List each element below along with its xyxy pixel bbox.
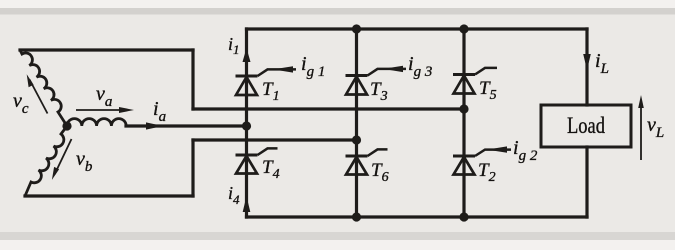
wire bridge leg 1 <box>245 29 248 217</box>
gate current arrow i_g2 <box>487 146 507 152</box>
arrow i_L down on load wire <box>583 54 591 70</box>
wire phase-b bottom horizontal <box>25 194 193 197</box>
thyristor T4 <box>236 148 278 173</box>
svg-text:Load: Load <box>567 113 605 138</box>
node phase b / leg 2 <box>352 135 361 144</box>
wire top rail <box>247 27 588 30</box>
wire bottom rail <box>247 215 588 218</box>
wire bridge leg 2 <box>355 29 358 217</box>
arrow v_c reference <box>27 74 48 113</box>
arrow v_L reference <box>638 95 644 160</box>
arrow v_b reference <box>52 139 72 180</box>
node top rail leg 3 <box>459 24 468 33</box>
load box U-Load <box>541 105 631 147</box>
inductor v_b winding <box>25 126 67 196</box>
wire load bottom drop <box>585 147 588 217</box>
wire phase-b vertical rise <box>191 140 194 196</box>
wire phase-c top horizontal <box>20 48 193 51</box>
thyristor T5 <box>453 68 497 94</box>
node phase c / leg 3 <box>459 104 468 113</box>
inductor v_c winding <box>20 50 67 126</box>
node bottom rail leg 3 <box>459 212 468 221</box>
arrow i_1 up on leg 1 <box>243 48 251 62</box>
wire phase-c to leg 3 <box>193 107 464 110</box>
gate current arrow i_g1 <box>273 66 293 72</box>
gate current arrow i_g3 <box>383 66 403 72</box>
node wye neutral <box>62 121 71 130</box>
arrow i_4 up on leg 1 bottom <box>243 196 251 212</box>
inductor v_a winding <box>67 119 126 126</box>
wire bridge leg 3 <box>462 29 465 217</box>
thyristor T3 <box>346 69 407 95</box>
node phase a / leg 1 <box>242 121 251 130</box>
thyristor T2 <box>453 150 511 175</box>
wire phase-c vertical drop <box>191 50 194 109</box>
wire phase-b to leg 2 <box>193 138 357 141</box>
wire load top drop <box>585 29 588 105</box>
thyristor T6 <box>346 149 388 174</box>
arrow i_a right on phase a wire <box>146 122 163 129</box>
wire phase-a to leg 1 <box>126 124 247 127</box>
thyristor T1 <box>236 69 297 95</box>
node bottom rail leg 2 <box>352 212 361 221</box>
node top rail leg 2 <box>352 24 361 33</box>
arrow v_a reference <box>76 107 134 113</box>
